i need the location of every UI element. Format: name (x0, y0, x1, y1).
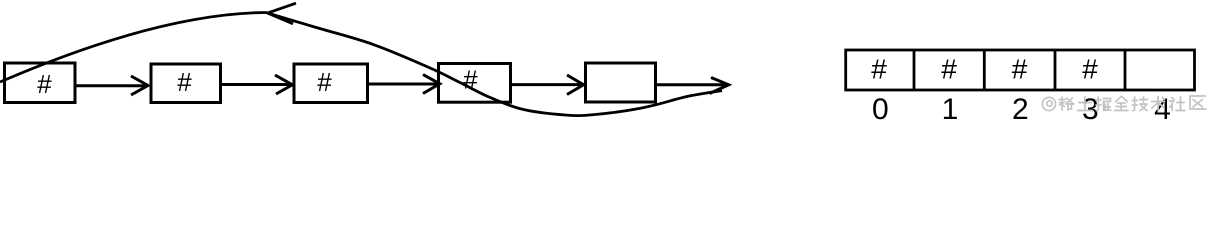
社 (1170, 97, 1186, 111)
array divider 3 (1054, 50, 1057, 90)
svg-text:0: 0 (872, 93, 889, 126)
node box 1 (5, 63, 76, 103)
node box 3 (294, 64, 368, 103)
svg-text:2: 2 (1012, 93, 1029, 126)
back-loop arrowhead at apex (points left) (268, 3, 297, 24)
array divider 4 (1124, 50, 1127, 90)
node box 4 (439, 64, 511, 103)
稀 (1059, 97, 1074, 110)
svg-text:1: 1 (942, 93, 959, 126)
node box 5 (empty) (586, 63, 656, 102)
区 (1190, 96, 1206, 109)
back-loop arc (left half, rises from node1 to apex) (0, 13, 267, 83)
array divider 2 (983, 50, 986, 90)
掘 (1096, 97, 1111, 111)
arrow node4 to node5 (512, 75, 584, 95)
array divider 1 (913, 50, 916, 90)
术 (1152, 97, 1165, 111)
arrow node1 to node2 (76, 76, 148, 95)
arrow node5 to tail (right arrowhead) (657, 78, 729, 94)
node box 2 (151, 64, 221, 103)
svg-text:#: # (1012, 54, 1028, 85)
svg-text:#: # (37, 69, 52, 99)
svg-text:#: # (317, 67, 332, 97)
svg-text:#: # (941, 54, 957, 85)
watermark @稀土掘金技术社区 (hand drawn gray strokes) (1042, 96, 1206, 111)
金 (1115, 97, 1129, 111)
array outer rectangle (846, 50, 1195, 90)
svg-text:#: # (177, 67, 192, 97)
@ (1042, 97, 1055, 110)
svg-text:#: # (1082, 54, 1098, 85)
arrow node3 to node4 (369, 75, 440, 94)
技 (1132, 97, 1147, 111)
土 (1078, 97, 1093, 111)
arrow node2 to node3 (222, 75, 292, 94)
svg-text:#: # (871, 54, 887, 85)
back-loop S-curve (from apex down through node4 to right arrowhead) (268, 13, 723, 116)
